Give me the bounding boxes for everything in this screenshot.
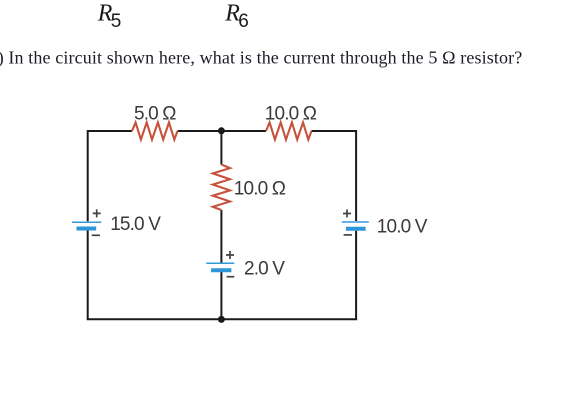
battery V3 minus sign xyxy=(344,234,352,236)
battery V1 plus sign xyxy=(93,209,101,217)
wire top middle xyxy=(178,130,267,132)
resistor 10.0 ohm (middle, vertical) xyxy=(213,165,230,211)
battery V2 2.0 V (middle): thin plate xyxy=(206,262,234,264)
svg-text:10.0 Ω: 10.0 Ω xyxy=(265,104,317,125)
battery V3 thick plate xyxy=(346,227,366,231)
wire top-left corner xyxy=(88,131,132,221)
svg-text:10.0 V: 10.0 V xyxy=(377,217,428,238)
node dot top junction xyxy=(218,127,225,134)
battery V1 15.0 V (left): thin plate xyxy=(72,221,101,223)
battery V2 plus sign xyxy=(226,251,234,259)
battery V3 plus sign xyxy=(343,210,351,218)
wire middle stem top xyxy=(220,131,222,165)
battery V1 thick plate xyxy=(77,227,97,231)
svg-text:10.0 Ω: 10.0 Ω xyxy=(234,178,286,199)
svg-text:6: 6 xyxy=(238,11,249,32)
label R6 xyxy=(224,0,249,32)
wire left lower xyxy=(87,231,89,320)
svg-text:5: 5 xyxy=(111,11,122,32)
svg-text:) In the circuit shown here, w: ) In the circuit shown here, what is the… xyxy=(0,48,522,69)
wire right lower xyxy=(355,231,357,320)
battery V2 minus sign xyxy=(227,276,235,278)
wire middle between resistor and battery xyxy=(220,210,222,263)
wire middle below battery xyxy=(220,272,222,319)
resistor R6 10.0 ohm (top right) xyxy=(266,122,312,139)
svg-text:2.0 V: 2.0 V xyxy=(244,259,285,280)
wire right upper + top-right corner xyxy=(312,131,357,221)
battery V1 minus sign xyxy=(92,234,100,236)
resistor R5 5.0 ohm (top left) xyxy=(132,122,178,139)
svg-text:5.0 Ω: 5.0 Ω xyxy=(134,104,176,125)
battery V2 thick plate xyxy=(211,268,231,272)
node dot bottom junction xyxy=(218,316,225,323)
wire bottom xyxy=(87,318,357,320)
label R5 xyxy=(97,0,122,32)
svg-text:15.0 V: 15.0 V xyxy=(110,214,161,235)
battery V3 10.0 V (right): thin plate xyxy=(342,221,369,223)
